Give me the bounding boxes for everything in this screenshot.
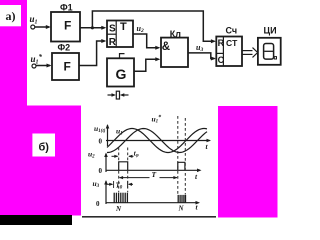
svg-text:0: 0 (99, 138, 103, 146)
arrowhead into F2 (47, 64, 52, 68)
plot1 t-axis (106, 140, 210, 142)
svg-text:F: F (64, 19, 71, 33)
dashed line pulse2 left (177, 116, 179, 195)
display dot (274, 57, 276, 59)
svg-text:S: S (109, 24, 116, 35)
counter box (Sch) (216, 37, 242, 67)
svg-text:Ф1: Ф1 (60, 3, 73, 13)
T dimension line (120, 177, 150, 179)
t-phi arrow right (114, 155, 118, 158)
svg-text:0: 0 (96, 200, 100, 208)
svg-text:N: N (115, 205, 122, 213)
trigger divider vertical (115, 21, 117, 48)
svg-text:T: T (152, 170, 157, 179)
label box a) (0, 5, 21, 26)
former F1 box (51, 12, 80, 42)
indicator box (TsI) (258, 38, 281, 65)
bus arrow counter to indicator (242, 50, 253, 52)
T0 dimension lines (106, 183, 112, 185)
arrowhead into counter R (211, 39, 216, 43)
former F2 box (52, 53, 79, 80)
wire u1* to F2 (36, 65, 50, 67)
arrowhead into S (101, 26, 106, 30)
label box b) (32, 134, 55, 157)
pulse 2 of u2 (178, 162, 185, 170)
digit 8 display (264, 44, 274, 60)
svg-text:C: C (218, 55, 225, 65)
arrowhead into F1 (46, 25, 51, 29)
svg-text:R: R (218, 38, 225, 48)
counter R/C divider (216, 52, 223, 54)
waveform box bottom border line (82, 216, 216, 218)
plot2 y-axis (105, 154, 107, 173)
input terminal u1* (32, 64, 36, 68)
pulse burst 1 of u3 (114, 193, 127, 203)
wire G output to gate (134, 59, 159, 71)
pulse symbol above G (120, 54, 125, 59)
feedback wire up and across top to counter R (92, 11, 214, 41)
svg-text:0: 0 (99, 167, 103, 175)
trigger S/R divider (107, 33, 116, 35)
svg-text:N: N (178, 205, 185, 213)
quartz arrow right (112, 93, 117, 97)
T0 arrow right (109, 183, 113, 186)
plot3 y-axis (105, 181, 107, 204)
svg-text:CT: CT (226, 38, 238, 48)
svg-text:a): a) (6, 9, 16, 23)
svg-text:F: F (64, 60, 71, 74)
counter divider vertical (222, 37, 224, 67)
quartz crystal symbol (108, 94, 114, 96)
quartz arrow left (120, 93, 125, 97)
T0 arrow left (128, 183, 132, 186)
wire u3 from gate to counter C (188, 53, 215, 59)
plot3 t-axis arrowhead (196, 201, 201, 205)
magenta right block (218, 106, 278, 218)
plot1 y-axis arrowhead (106, 124, 110, 129)
svg-text:T: T (120, 21, 127, 33)
T dim arrow left (119, 176, 123, 179)
t-phi dimension lines (112, 155, 118, 157)
svg-text:Кл: Кл (170, 29, 181, 39)
svg-text:G: G (116, 66, 127, 82)
plot3 y-axis arrowhead (104, 180, 108, 185)
plot3 t-axis (106, 202, 199, 204)
plot2 y-axis arrowhead (104, 153, 108, 158)
generator G box (107, 58, 134, 86)
plot2 t-axis (106, 169, 200, 171)
svg-text:б): б) (39, 141, 50, 153)
dashed line pulse2 right (184, 118, 186, 195)
gate box (Kl) (161, 38, 188, 67)
input terminal u1 (31, 25, 35, 29)
svg-text:R: R (109, 37, 117, 48)
sine u1 (107, 129, 207, 153)
svg-text:Ф2: Ф2 (58, 43, 71, 53)
svg-text:&: & (162, 41, 170, 53)
magenta bottom-left block (0, 106, 81, 216)
sine u1* (107, 129, 207, 153)
T dim arrow right (173, 176, 177, 179)
pulse 1 of u2 (119, 162, 128, 171)
junction dot S node (91, 26, 94, 29)
plot1 t-axis arrowhead (207, 139, 212, 143)
trigger T box (107, 21, 133, 48)
black bar bottom-left (0, 215, 72, 225)
arrowhead into counter C (211, 57, 216, 61)
magenta left column (0, 0, 27, 106)
plot1 y-axis (107, 125, 109, 146)
wire u2 from T to gate (133, 34, 159, 48)
pulse burst 2 of u3 (178, 195, 185, 203)
dashed line pulse1 left (118, 148, 120, 162)
t-phi arrow left (128, 155, 132, 158)
wire F2 output up to R input (79, 41, 105, 66)
arrowhead into gate input 1 (155, 46, 160, 50)
wire F1 output to S input (80, 27, 105, 29)
plot2 t-axis arrowhead (197, 169, 202, 173)
wire u1 to F1 (35, 26, 49, 28)
svg-text:ЦИ: ЦИ (264, 26, 277, 36)
arrowhead into gate input 2 (155, 57, 160, 61)
arrowhead into R of trigger (101, 39, 106, 43)
dashed line pulse1 right (127, 148, 129, 162)
svg-text:Сч: Сч (226, 26, 238, 36)
